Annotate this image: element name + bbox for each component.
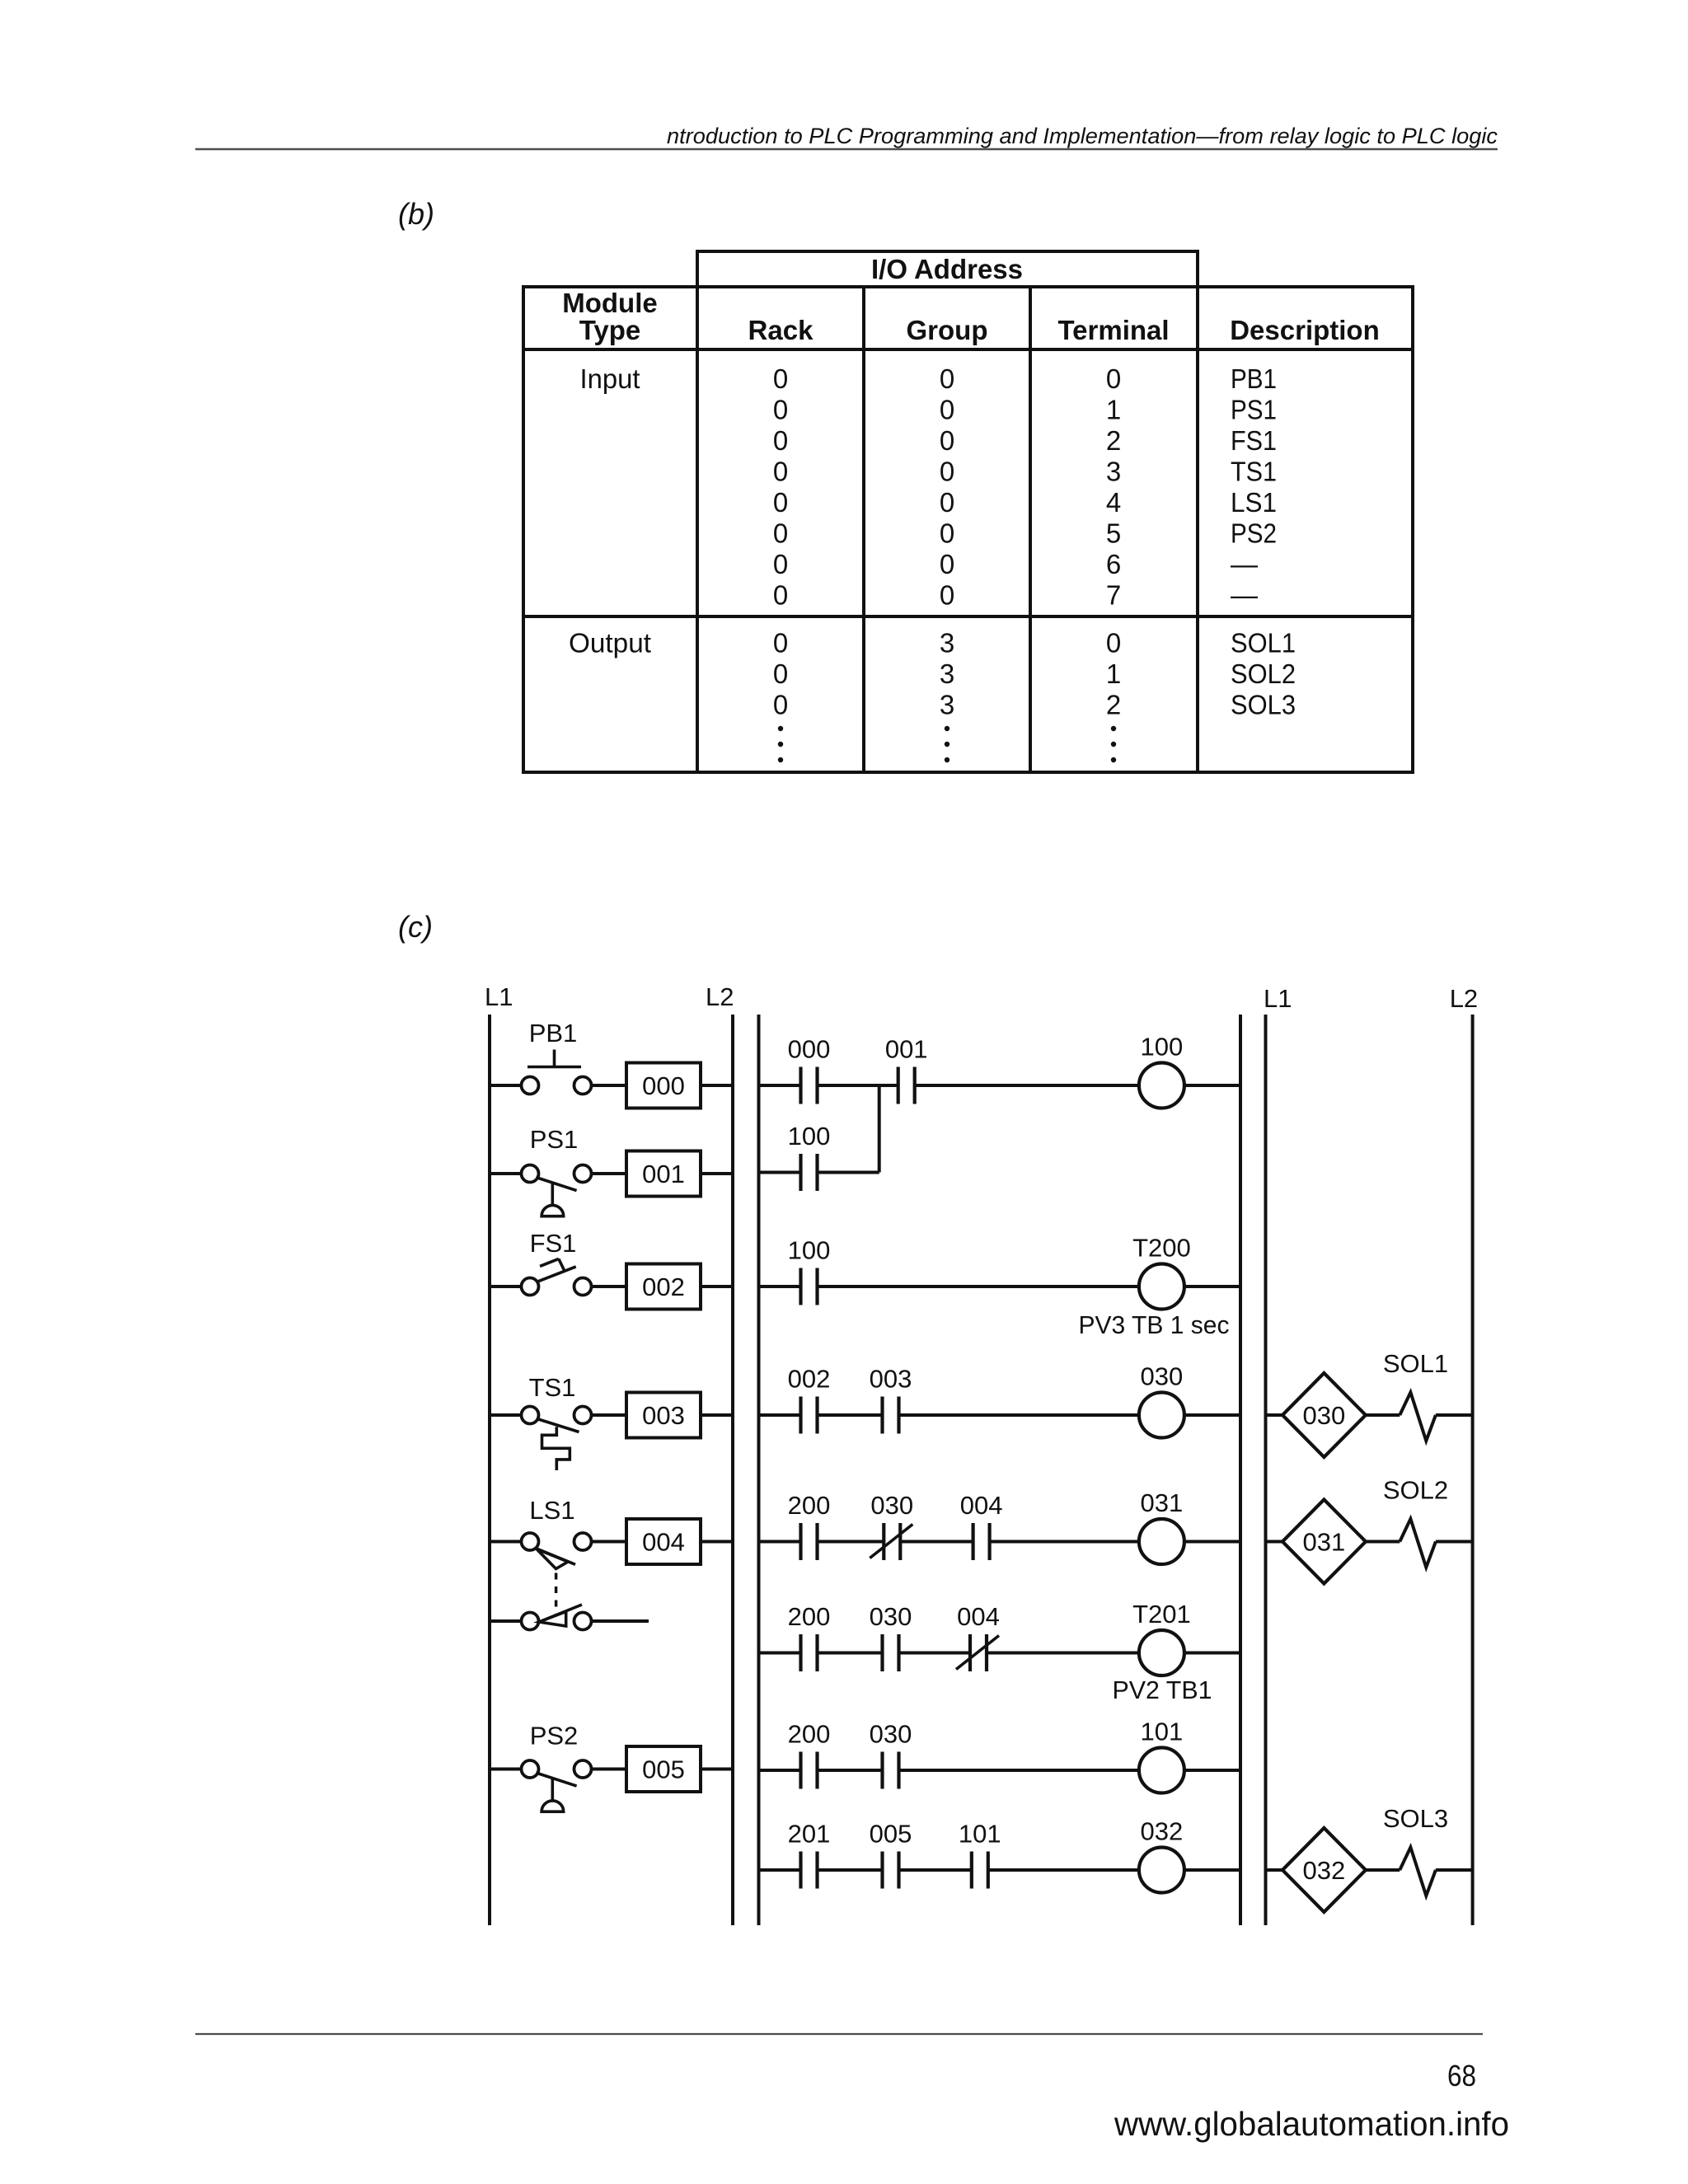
svg-text:5: 5 — [1106, 518, 1121, 549]
svg-text:100: 100 — [788, 1236, 831, 1265]
svg-text:Output: Output — [569, 628, 651, 658]
svg-text:0: 0 — [773, 658, 788, 689]
svg-text:3: 3 — [940, 628, 954, 658]
svg-text:101: 101 — [959, 1820, 1001, 1849]
svg-text:0: 0 — [940, 425, 954, 456]
NO contact 101 — [959, 1820, 1001, 1889]
wire solenoid SOL3 to L2 — [1436, 1868, 1473, 1872]
wire L1 to PS2 — [490, 1768, 522, 1771]
input address box 003 — [626, 1393, 701, 1438]
table column dividers — [697, 287, 1198, 772]
header rule — [195, 148, 1498, 150]
limit switch LS1 — [522, 1496, 592, 1569]
mechanical link dashed line LS1 — [555, 1573, 558, 1617]
NO contact 003 — [870, 1365, 912, 1434]
NO contact 000 — [788, 1035, 831, 1104]
wire solenoid SOL1 to L2 — [1436, 1413, 1473, 1417]
svg-text:003: 003 — [870, 1365, 912, 1394]
svg-text:000: 000 — [642, 1071, 685, 1100]
rung wire rung 5 — [759, 1540, 1241, 1544]
output diamond 032 — [1282, 1828, 1366, 1912]
svg-text:PS2: PS2 — [530, 1722, 579, 1750]
svg-text:0: 0 — [940, 363, 954, 394]
svg-text:68: 68 — [1447, 2059, 1476, 2093]
svg-text:0: 0 — [1106, 363, 1121, 394]
limit switch LS1 second contact — [522, 1605, 592, 1630]
wire box 005 to L2 — [701, 1768, 733, 1771]
solenoid SOL3 — [1383, 1804, 1448, 1896]
svg-text:SOL1: SOL1 — [1383, 1349, 1448, 1378]
svg-text:0: 0 — [940, 457, 954, 487]
svg-text:030: 030 — [870, 1720, 912, 1749]
wire PB1 to box 000 — [592, 1084, 627, 1087]
output diamond 030 — [1282, 1373, 1366, 1457]
input address box 002 — [626, 1264, 701, 1310]
svg-text:001: 001 — [642, 1160, 685, 1188]
output coil 030 — [1139, 1362, 1184, 1438]
NO contact 001 — [885, 1035, 928, 1104]
NO contact 200 — [788, 1602, 831, 1671]
svg-text:LS1: LS1 — [529, 1496, 574, 1525]
rung wire rung 1 — [759, 1084, 1241, 1087]
svg-text:www.globalautomation.info: www.globalautomation.info — [1114, 2105, 1509, 2143]
rung wire rung 8 — [759, 1868, 1241, 1872]
output coil 101 — [1139, 1718, 1184, 1793]
wire solenoid SOL2 to L2 — [1436, 1540, 1473, 1544]
input address box 001 — [626, 1151, 701, 1197]
svg-text:100: 100 — [1141, 1033, 1184, 1062]
svg-text:100: 100 — [788, 1122, 831, 1151]
svg-text:TS1: TS1 — [1231, 457, 1277, 487]
svg-text:PB1: PB1 — [529, 1019, 578, 1047]
svg-text:3: 3 — [1106, 457, 1121, 487]
output coil 032 — [1139, 1817, 1184, 1893]
output power rail L1 — [1264, 984, 1292, 1925]
wire box 000 to L2 — [701, 1084, 733, 1087]
NO contact 004 — [960, 1491, 1003, 1560]
svg-text:002: 002 — [642, 1272, 685, 1301]
output diamond 031 — [1282, 1500, 1366, 1584]
svg-text:0: 0 — [773, 425, 788, 456]
svg-text:005: 005 — [870, 1820, 912, 1849]
svg-text:002: 002 — [788, 1365, 831, 1394]
svg-text:—: — — [1231, 549, 1258, 579]
wire output L1 to diamond 032 — [1266, 1868, 1283, 1872]
svg-text:1: 1 — [1106, 658, 1121, 689]
wire LS1 to box 004 — [592, 1540, 627, 1544]
svg-text:L1: L1 — [1264, 984, 1292, 1013]
svg-text:L1: L1 — [485, 982, 513, 1011]
svg-text:0: 0 — [773, 487, 788, 518]
wire output L1 to diamond 030 — [1266, 1413, 1283, 1417]
svg-text:SOL2: SOL2 — [1383, 1476, 1448, 1505]
svg-text:T201: T201 — [1132, 1600, 1191, 1629]
table ellipsis dots — [778, 726, 1116, 762]
wire output L1 to diamond 031 — [1266, 1540, 1283, 1544]
input address box 004 — [626, 1519, 701, 1564]
wire PS2 to box 005 — [592, 1768, 627, 1771]
svg-text:PV2 TB1: PV2 TB1 — [1113, 1675, 1212, 1704]
svg-text:L2: L2 — [706, 982, 734, 1011]
svg-text:SOL3: SOL3 — [1383, 1804, 1448, 1833]
svg-text:ntroduction to PLC Programming: ntroduction to PLC Programming and Imple… — [667, 124, 1498, 148]
table outer border — [523, 287, 1413, 772]
footer rule — [195, 2033, 1483, 2035]
wire diamond 032 to solenoid — [1366, 1868, 1400, 1872]
svg-text:2: 2 — [1106, 690, 1121, 720]
PLC program right rail — [1239, 1015, 1242, 1925]
svg-text:032: 032 — [1141, 1817, 1184, 1846]
svg-text:200: 200 — [788, 1602, 831, 1631]
svg-text:0: 0 — [773, 363, 788, 394]
NO contact 030 — [870, 1720, 912, 1789]
wire diamond 030 to solenoid — [1366, 1413, 1400, 1417]
table column headers — [562, 288, 1380, 345]
pressure switch PS2 — [522, 1722, 592, 1812]
NO contact 200 — [788, 1720, 831, 1789]
NO contact 100 — [788, 1236, 831, 1305]
solenoid SOL2 — [1383, 1476, 1448, 1568]
wire diamond 031 to solenoid — [1366, 1540, 1400, 1544]
svg-text:031: 031 — [1303, 1528, 1346, 1557]
svg-text:T200: T200 — [1132, 1234, 1191, 1263]
wire box 001 to L2 — [701, 1172, 733, 1175]
svg-text:3: 3 — [940, 658, 954, 689]
table input rows — [580, 363, 1278, 611]
svg-text:L2: L2 — [1450, 984, 1478, 1013]
wire LS1 second contact stub — [592, 1619, 649, 1623]
svg-text:0: 0 — [773, 690, 788, 720]
svg-text:Group: Group — [907, 315, 988, 345]
wire TS1 to box 003 — [592, 1413, 627, 1417]
svg-text:6: 6 — [1106, 549, 1121, 579]
svg-text:7: 7 — [1106, 580, 1121, 611]
svg-text:003: 003 — [642, 1401, 685, 1430]
wire PS1 to box 001 — [592, 1172, 627, 1175]
svg-text:SOL1: SOL1 — [1231, 628, 1296, 658]
svg-text:Type: Type — [579, 315, 641, 345]
input address box 005 — [626, 1746, 701, 1792]
rung wire rung 3 — [759, 1285, 1241, 1288]
rung wire rung 2 branch — [759, 1171, 879, 1174]
svg-text:0: 0 — [773, 549, 788, 579]
NO contact 002 — [788, 1365, 831, 1434]
svg-text:PV3 TB 1 sec: PV3 TB 1 sec — [1079, 1310, 1230, 1339]
NC contact 004 — [956, 1602, 1000, 1671]
output coil 100 — [1139, 1033, 1184, 1108]
NO contact 201 — [788, 1820, 831, 1889]
NO contact 030 — [870, 1602, 912, 1671]
svg-text:030: 030 — [1141, 1362, 1184, 1391]
svg-text:Input: Input — [580, 363, 640, 394]
svg-text:200: 200 — [788, 1720, 831, 1749]
NO contact 005 — [870, 1820, 912, 1889]
svg-text:PS2: PS2 — [1231, 518, 1277, 549]
svg-text:3: 3 — [940, 690, 954, 720]
svg-text:PB1: PB1 — [1231, 363, 1277, 394]
flow switch FS1 — [522, 1229, 592, 1296]
svg-text:Rack: Rack — [748, 315, 814, 345]
svg-text:SOL3: SOL3 — [1231, 690, 1296, 720]
svg-text:Terminal: Terminal — [1057, 315, 1169, 345]
wire FS1 to box 002 — [592, 1285, 627, 1288]
wire L1 to LS1 — [490, 1540, 522, 1544]
output coil 031 — [1139, 1488, 1184, 1564]
NC contact 030 — [870, 1491, 913, 1560]
solenoid SOL1 — [1383, 1349, 1448, 1441]
svg-text:(b): (b) — [398, 197, 434, 231]
wire box 004 to L2 — [701, 1540, 733, 1544]
wire box 002 to L2 — [701, 1285, 733, 1288]
svg-text:LS1: LS1 — [1231, 487, 1277, 518]
rung wire rung 4 — [759, 1413, 1241, 1417]
svg-text:—: — — [1231, 580, 1258, 611]
output coil T200 — [1079, 1234, 1230, 1339]
PLC program left rail — [757, 1015, 761, 1925]
svg-text:PS1: PS1 — [530, 1125, 579, 1154]
output coil T201 — [1113, 1600, 1212, 1704]
svg-text:0: 0 — [773, 580, 788, 611]
output power rail L2 — [1450, 984, 1478, 1925]
wire box 003 to L2 — [701, 1413, 733, 1417]
svg-text:FS1: FS1 — [1231, 425, 1277, 456]
NO contact 100 — [788, 1122, 831, 1191]
svg-text:1: 1 — [1106, 395, 1121, 425]
svg-text:I/O Address: I/O Address — [871, 254, 1023, 284]
svg-text:001: 001 — [885, 1035, 928, 1064]
svg-text:0: 0 — [940, 518, 954, 549]
svg-text:PS1: PS1 — [1231, 395, 1277, 425]
svg-text:(c): (c) — [398, 910, 433, 944]
svg-text:Module: Module — [562, 288, 657, 318]
svg-text:SOL2: SOL2 — [1231, 658, 1296, 689]
table row dividers — [523, 349, 1413, 616]
svg-text:2: 2 — [1106, 425, 1121, 456]
pressure switch PS1 — [522, 1125, 592, 1216]
wire L1 to TS1 — [490, 1413, 522, 1417]
table output rows — [569, 628, 1296, 720]
svg-text:0: 0 — [773, 395, 788, 425]
NO contact 200 — [788, 1491, 831, 1560]
wire L1 to LS1 second contact — [490, 1619, 522, 1623]
svg-text:0: 0 — [940, 580, 954, 611]
svg-text:0: 0 — [773, 628, 788, 658]
svg-text:005: 005 — [642, 1755, 685, 1784]
svg-text:0: 0 — [773, 518, 788, 549]
svg-text:0: 0 — [773, 457, 788, 487]
svg-text:200: 200 — [788, 1491, 831, 1520]
input power rail L1 — [485, 982, 513, 1925]
wire L1 to FS1 — [490, 1285, 522, 1288]
svg-text:FS1: FS1 — [530, 1229, 577, 1258]
svg-text:030: 030 — [1303, 1401, 1346, 1430]
svg-text:031: 031 — [1141, 1488, 1184, 1517]
svg-text:032: 032 — [1303, 1856, 1346, 1885]
wire L1 to PS1 — [490, 1172, 522, 1175]
table I/O Address header box — [697, 251, 1198, 287]
input power rail L2 — [706, 982, 734, 1925]
svg-text:0: 0 — [940, 395, 954, 425]
input address box 000 — [626, 1063, 701, 1108]
svg-text:030: 030 — [870, 1491, 913, 1520]
svg-text:TS1: TS1 — [529, 1373, 576, 1402]
svg-text:004: 004 — [960, 1491, 1003, 1520]
svg-text:000: 000 — [788, 1035, 831, 1064]
svg-text:004: 004 — [957, 1602, 1000, 1631]
pushbutton PB1 — [522, 1019, 592, 1094]
svg-text:0: 0 — [940, 549, 954, 579]
svg-text:101: 101 — [1141, 1718, 1184, 1746]
wire L1 to PB1 — [490, 1084, 522, 1087]
branch wire junction to contact 100 — [878, 1085, 881, 1173]
svg-text:0: 0 — [940, 487, 954, 518]
temperature switch TS1 — [522, 1373, 592, 1470]
rung wire rung 7 — [759, 1769, 1241, 1772]
svg-text:Description: Description — [1230, 315, 1380, 345]
svg-text:4: 4 — [1106, 487, 1121, 518]
svg-text:201: 201 — [788, 1820, 831, 1849]
rung wire rung 6 — [759, 1652, 1241, 1655]
svg-text:030: 030 — [870, 1602, 912, 1631]
svg-text:004: 004 — [642, 1528, 685, 1557]
svg-text:0: 0 — [1106, 628, 1121, 658]
